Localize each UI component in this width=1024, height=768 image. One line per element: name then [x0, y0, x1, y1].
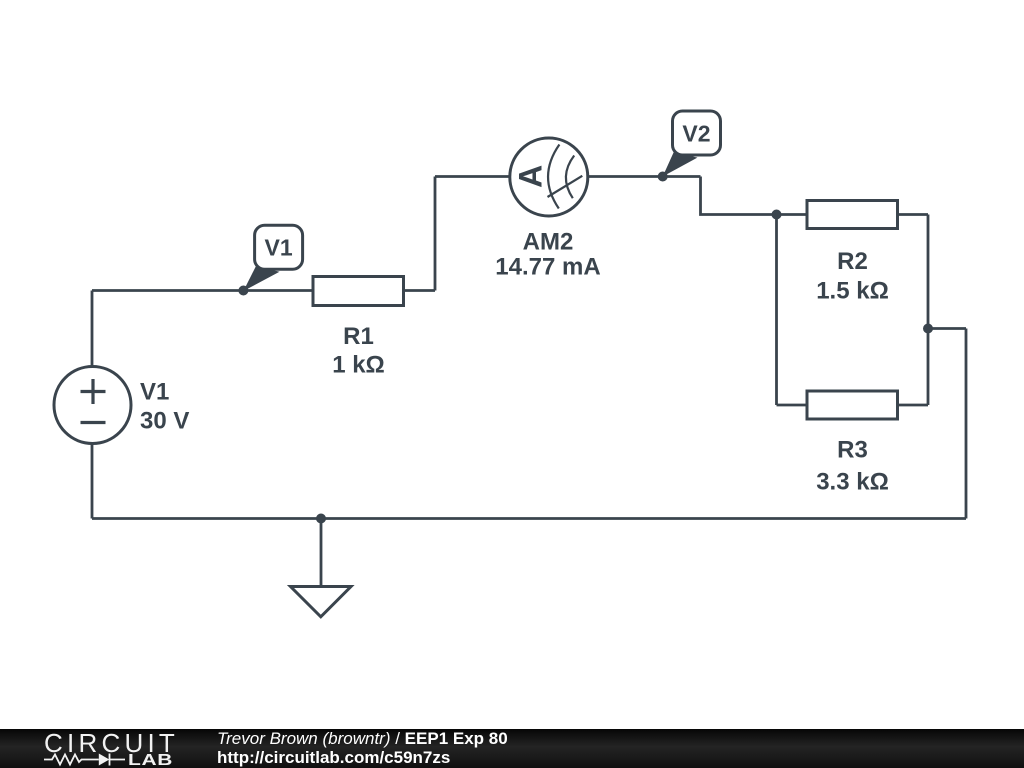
node dot parallel-left: [772, 210, 782, 220]
svg-text:30 V: 30 V: [140, 408, 189, 435]
wire R3 right: [898, 404, 929, 407]
wire to ammeter: [435, 175, 510, 178]
wire right vertical down: [965, 329, 968, 519]
voltage source V1: [54, 367, 131, 444]
svg-text:A: A: [513, 165, 549, 188]
wire V2 down jog: [701, 177, 777, 215]
wire output tap: [928, 327, 966, 330]
wire parallel right vertical: [927, 215, 930, 406]
svg-text:1 kΩ: 1 kΩ: [332, 352, 385, 379]
flag V2: [663, 111, 721, 177]
resistor R2: [807, 201, 898, 229]
footer credit text: [217, 729, 508, 767]
flag V1: [243, 225, 302, 291]
wire left vertical upper: [91, 291, 94, 368]
svg-text:V1: V1: [140, 379, 169, 406]
resistor R3: [807, 391, 898, 419]
wire bottom horizontal: [92, 517, 966, 520]
svg-text:R3: R3: [837, 437, 868, 464]
node dot output: [923, 324, 933, 334]
svg-text:R1: R1: [343, 323, 374, 350]
node dot V2: [658, 172, 668, 182]
wire mid vertical up: [434, 177, 437, 291]
svg-text:1.5 kΩ: 1.5 kΩ: [816, 278, 889, 305]
ground: [291, 587, 352, 617]
ground stem: [320, 519, 323, 587]
svg-text:R2: R2: [837, 248, 868, 275]
wire left vertical lower: [91, 444, 94, 519]
svg-text:3.3 kΩ: 3.3 kΩ: [816, 469, 889, 496]
footer bar: [0, 729, 1024, 768]
ammeter AM2: [510, 138, 588, 216]
wire ammeter to V2 node: [588, 175, 701, 178]
node dot ground: [316, 514, 326, 524]
svg-text:14.77 mA: 14.77 mA: [495, 254, 600, 281]
CircuitLab logo: [0, 729, 190, 768]
resistor R1: [313, 277, 404, 306]
wire top-left horizontal: [92, 289, 313, 292]
wire to R3 left: [777, 404, 808, 407]
svg-text:AM2: AM2: [523, 229, 574, 256]
node dot V1: [238, 286, 248, 296]
wire R2 right: [898, 213, 929, 216]
svg-text:V1: V1: [265, 235, 293, 261]
wire R1 right: [404, 289, 436, 292]
svg-text:LAB: LAB: [128, 752, 173, 768]
svg-text:V2: V2: [682, 121, 710, 147]
wire to R2 left: [777, 213, 808, 216]
wire parallel left vertical: [775, 215, 778, 406]
